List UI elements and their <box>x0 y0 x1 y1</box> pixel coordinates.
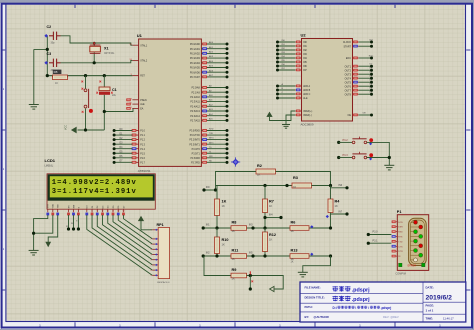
svg-text:1K: 1K <box>291 229 294 233</box>
svg-text:RXD: RXD <box>398 232 403 234</box>
svg-text:ERROR: ERROR <box>408 266 417 268</box>
svg-text:COMPIM: COMPIM <box>396 272 406 275</box>
push button P3.2 <box>337 141 340 144</box>
svg-text:VREF(+): VREF(+) <box>303 111 312 113</box>
crystal X1 <box>93 43 95 46</box>
op: U1 microcontroller AT89C51 body <box>139 39 202 166</box>
resistor R2 <box>256 169 276 174</box>
op: U2 ADC0808 body <box>302 39 353 122</box>
svg-text:4: 4 <box>151 249 152 251</box>
svg-text:1K: 1K <box>269 237 272 241</box>
svg-text:OE: OE <box>363 113 367 115</box>
svg-text:.pdsprj: .pdsprj <box>352 297 370 303</box>
svg-text:P2.3/A11: P2.3/A11 <box>190 101 200 104</box>
svg-text:R8: R8 <box>54 70 58 74</box>
svg-text:BY:: BY: <box>305 315 310 319</box>
svg-text:OUT4: OUT4 <box>345 78 352 80</box>
svg-text:1K: 1K <box>222 200 227 204</box>
svg-text:OUT1: OUT1 <box>345 66 352 68</box>
wire VCC to RP1 pin1 <box>141 221 152 230</box>
node: C2/C3 junction <box>46 48 49 51</box>
svg-text:P0.5/AD5: P0.5/AD5 <box>190 67 201 70</box>
wire right column top <box>330 186 332 229</box>
svg-text:START: START <box>343 45 351 48</box>
wire R3 right / IN6 stub <box>312 186 348 188</box>
resistor R12 <box>263 232 268 252</box>
svg-text:OE: OE <box>348 115 352 117</box>
svg-text:2019/6/2: 2019/6/2 <box>426 294 453 301</box>
svg-text:RTS: RTS <box>398 237 403 239</box>
svg-text:LM016L: LM016L <box>45 165 54 168</box>
COMPIM indicator pins <box>411 221 416 223</box>
svg-text:7: 7 <box>151 265 152 267</box>
wire R9 left leg <box>204 256 231 276</box>
svg-text:R2: R2 <box>257 164 262 168</box>
svg-text:1K: 1K <box>222 242 225 246</box>
svg-text:VSS: VSS <box>48 204 50 209</box>
svg-text:P2.5/A13: P2.5/A13 <box>190 110 200 113</box>
wire: ground net left vertical <box>34 36 48 104</box>
svg-text:R9: R9 <box>232 268 237 272</box>
svg-text:ALE: ALE <box>303 97 308 100</box>
svg-text:TIME:: TIME: <box>426 316 434 320</box>
svg-text:11:46:17: 11:46:17 <box>443 316 454 320</box>
svg-text:P2.1/A9: P2.1/A9 <box>192 91 201 94</box>
svg-text:C1: C1 <box>112 88 117 92</box>
svg-text:D:\: D:\ <box>333 306 337 310</box>
svg-text:1K: 1K <box>55 82 58 85</box>
svg-text:ADD C: ADD C <box>303 93 311 96</box>
svg-text:FILE NAME:: FILE NAME: <box>305 286 321 290</box>
svg-text:1K: 1K <box>291 260 294 263</box>
svg-text:DCD: DCD <box>398 222 403 224</box>
wires LCD D0-D7 to RP1 <box>87 215 152 275</box>
wire RST row <box>47 75 132 77</box>
wire VREF(-) to ground <box>286 115 295 124</box>
wire VCC to VREF(+) <box>270 111 296 121</box>
svg-text:LCD1: LCD1 <box>45 158 56 163</box>
svg-text:1K: 1K <box>335 204 338 208</box>
svg-text:P3.5/T1: P3.5/T1 <box>192 153 201 155</box>
svg-text:VREF(-): VREF(-) <box>303 115 312 117</box>
svg-text:CLK: CLK <box>369 40 374 42</box>
svg-text:2: 2 <box>151 239 152 241</box>
svg-text:1K: 1K <box>232 277 235 281</box>
svg-text:R3: R3 <box>293 176 298 180</box>
svg-text:P3.0/RXD: P3.0/RXD <box>189 131 200 133</box>
svg-text:C3: C3 <box>47 52 52 56</box>
svg-text:1=4.998v2=2.489v: 1=4.998v2=2.489v <box>52 179 137 187</box>
svg-text:RD: RD <box>209 160 213 162</box>
svg-text:P3.3: P3.3 <box>343 154 349 157</box>
push button P3.3 <box>337 156 340 159</box>
svg-text:P2.7/A15: P2.7/A15 <box>190 120 200 123</box>
wire R9 right / probe <box>247 276 284 290</box>
power VCC (RP1) <box>138 216 143 220</box>
U1 right pins: stubs, numbers, wires, dots <box>201 44 227 162</box>
svg-text:P3.1/TXD: P3.1/TXD <box>190 135 200 137</box>
svg-text:R13: R13 <box>291 248 298 252</box>
wire LCD VDD <box>34 215 53 233</box>
svg-text:R10: R10 <box>222 238 229 242</box>
svg-text:P0.0/AD0: P0.0/AD0 <box>190 43 201 46</box>
svg-text:U2: U2 <box>301 33 307 38</box>
IN0 stub <box>204 186 216 191</box>
svg-text:RXD: RXD <box>209 129 214 131</box>
resistor R13 <box>290 254 309 259</box>
svg-text:P2.4/A12: P2.4/A12 <box>190 105 200 108</box>
svg-text:P0.7/AD7: P0.7/AD7 <box>190 76 201 79</box>
ground (ADC VREF-) <box>282 125 290 129</box>
svg-text:P0.6/AD6: P0.6/AD6 <box>190 71 201 74</box>
IN4 stub <box>265 217 281 219</box>
svg-text:1K: 1K <box>257 173 260 177</box>
wire right column to ground <box>303 256 331 272</box>
svg-text:P1.6: P1.6 <box>140 158 145 160</box>
svg-text:ADC0809: ADC0809 <box>301 123 314 127</box>
svg-text:ALE: ALE <box>140 103 145 106</box>
title block <box>300 282 466 322</box>
ground (LCD) <box>29 250 39 255</box>
wire C2 to XTAL1 <box>61 36 133 45</box>
svg-text:EA: EA <box>140 108 144 111</box>
svg-text:P3.2/INT0: P3.2/INT0 <box>189 140 200 142</box>
svg-text:P1.1: P1.1 <box>140 135 145 137</box>
wire mid column top <box>264 186 266 229</box>
wires LCD RS RW E <box>69 215 79 229</box>
wire C3 to XTAL2 <box>61 60 133 62</box>
svg-text:1K: 1K <box>232 229 235 233</box>
wire row IN0 <box>216 185 293 187</box>
svg-text:P1.4: P1.4 <box>140 149 145 151</box>
origin marker (blue diamond) <box>231 157 240 166</box>
svg-text:R12: R12 <box>269 233 276 237</box>
svg-text:CRYSTAL: CRYSTAL <box>104 52 115 55</box>
svg-text:P0.3/AD3: P0.3/AD3 <box>190 57 201 60</box>
svg-text:OUT8: OUT8 <box>345 94 352 96</box>
svg-text:8: 8 <box>151 270 152 272</box>
resistor R4 <box>328 199 333 213</box>
svg-text:CTS: CTS <box>398 246 403 248</box>
push button (reset) <box>85 76 87 130</box>
resistor R8 (reset pulldown) <box>53 70 62 74</box>
resistor R7 <box>263 199 268 213</box>
svg-text:DSR: DSR <box>398 227 403 229</box>
wires P3.0 P3.1 to COMPIM <box>368 234 391 236</box>
power VCC (ADC VREF+) <box>267 112 272 116</box>
U1 PSEN/ALE/EA red pin boxes <box>126 98 131 101</box>
svg-text:EOC: EOC <box>369 56 374 58</box>
svg-text:1K: 1K <box>293 185 296 189</box>
svg-text:P2.6/A14: P2.6/A14 <box>190 115 200 118</box>
svg-text:TXD: TXD <box>398 241 403 243</box>
svg-text:ADD A: ADD A <box>303 85 310 88</box>
svg-text:.pdsprj: .pdsprj <box>381 306 392 310</box>
U1 left pin stubs and names <box>132 45 138 162</box>
svg-text:\: \ <box>355 306 356 310</box>
svg-text:RW: RW <box>71 223 74 225</box>
svg-text:REV: @REV: REV: @REV <box>383 315 399 319</box>
svg-text:P1.2: P1.2 <box>140 140 145 142</box>
ground (reset network) <box>29 105 39 110</box>
svg-text:TXD: TXD <box>209 133 214 135</box>
wire R2 right <box>276 172 331 186</box>
U1 P1 left wires with D0-D7 labels <box>114 131 132 163</box>
svg-text:OUT7: OUT7 <box>345 90 352 92</box>
svg-text:5: 5 <box>151 254 152 256</box>
svg-text:.pdsprj: .pdsprj <box>352 288 370 294</box>
svg-text:6: 6 <box>151 260 152 262</box>
svg-text:ADD B: ADD B <box>303 89 311 92</box>
wire LCD VEE contrast arrow <box>48 215 58 242</box>
wire row IN2 <box>203 255 330 257</box>
svg-text:C2: C2 <box>47 25 52 29</box>
svg-text:3: 3 <box>151 244 152 246</box>
svg-text:P0.2/AD2: P0.2/AD2 <box>190 53 201 56</box>
svg-text:\: \ <box>368 306 369 310</box>
svg-text:RW: RW <box>73 205 75 208</box>
svg-text:9: 9 <box>151 275 152 277</box>
svg-text:DTR: DTR <box>398 251 403 253</box>
resistor R6 <box>290 226 309 231</box>
wire row IN1 <box>203 227 330 229</box>
IN7 stub <box>331 213 348 215</box>
resistor R5 (1K left column) <box>215 199 220 216</box>
svg-text:WR: WR <box>209 156 213 158</box>
resistor R3 <box>292 183 312 188</box>
svg-text:P3.1: P3.1 <box>373 239 379 242</box>
svg-text:OUT2: OUT2 <box>345 70 352 72</box>
svg-text:P3.6/WR: P3.6/WR <box>190 158 200 160</box>
power arrow (R9 output) <box>270 286 274 291</box>
svg-text:AT89C51: AT89C51 <box>138 169 151 173</box>
capacitor C1 (electrolytic) <box>103 76 105 87</box>
svg-text:DATE:: DATE: <box>426 286 434 290</box>
svg-text:DESIGN TITLE:: DESIGN TITLE: <box>305 295 325 299</box>
svg-text:1 of 1: 1 of 1 <box>426 309 434 313</box>
svg-text:@AUTHOR: @AUTHOR <box>314 315 330 319</box>
svg-text:OUT6: OUT6 <box>345 86 352 88</box>
resistor R8b (row2 left) <box>231 226 247 231</box>
svg-text:P3.2: P3.2 <box>343 139 349 142</box>
svg-text:VCC: VCC <box>65 125 68 130</box>
resistor R10 <box>215 237 220 254</box>
svg-text:R7: R7 <box>269 200 274 204</box>
svg-text:RESPACK-8: RESPACK-8 <box>157 281 170 284</box>
ground (buttons) <box>384 165 394 170</box>
svg-text:P3.3/INT1: P3.3/INT1 <box>189 144 200 146</box>
svg-text:1K: 1K <box>232 257 235 261</box>
svg-text:RST: RST <box>140 76 145 78</box>
svg-text:P1.0: P1.0 <box>140 131 145 133</box>
svg-text:PATH:: PATH: <box>305 305 313 309</box>
wire buttons to ground <box>367 142 390 165</box>
svg-text:XTAL2: XTAL2 <box>140 60 148 63</box>
svg-text:1K: 1K <box>222 204 225 208</box>
svg-text:22u: 22u <box>112 94 117 97</box>
svg-text:R11: R11 <box>232 248 239 252</box>
svg-text:3=1.117v4=1.391v: 3=1.117v4=1.391v <box>52 188 137 196</box>
svg-text:P3.0: P3.0 <box>373 231 379 234</box>
resistor R9 <box>231 273 247 278</box>
svg-text:R8: R8 <box>232 220 237 224</box>
wire left column <box>216 186 218 229</box>
svg-text:CLOCK: CLOCK <box>343 42 351 44</box>
wire LCD VSS to ground <box>34 215 48 250</box>
svg-text:U1: U1 <box>137 33 143 38</box>
svg-text:PAGE:: PAGE: <box>426 304 435 308</box>
svg-text:P3.7/RD: P3.7/RD <box>191 162 200 164</box>
svg-text:P1: P1 <box>397 210 402 214</box>
svg-text:P2.2/A10: P2.2/A10 <box>190 96 200 99</box>
svg-text:1K: 1K <box>269 204 272 208</box>
resistor R11 <box>231 254 247 259</box>
wire VCC row <box>78 129 105 131</box>
svg-text:OUT3: OUT3 <box>345 74 352 76</box>
svg-text:EOC: EOC <box>346 58 351 60</box>
svg-text:P2.0/A8: P2.0/A8 <box>192 87 201 90</box>
svg-text:P0.4/AD4: P0.4/AD4 <box>190 62 201 65</box>
svg-text:VEE: VEE <box>58 204 60 209</box>
COMPIM error indicators <box>399 263 402 267</box>
U2 left pins stubs/wires <box>278 42 296 98</box>
COMPIM D-sub connector <box>409 218 427 265</box>
svg-text:VDD: VDD <box>53 203 55 208</box>
svg-text:P0.1/AD1: P0.1/AD1 <box>190 48 201 51</box>
svg-text:PSEN: PSEN <box>140 100 147 102</box>
power VCC (reset) <box>72 127 76 132</box>
U2 right pins stubs/wires <box>353 42 359 115</box>
ground (resistor network) <box>298 272 308 277</box>
svg-text:P1.3: P1.3 <box>140 144 145 146</box>
svg-text:XTAL1: XTAL1 <box>140 44 148 47</box>
svg-text:P3.4/T0: P3.4/T0 <box>192 149 201 151</box>
wire R2 left <box>216 172 257 186</box>
svg-text:30p: 30p <box>51 42 56 45</box>
svg-text:RP1: RP1 <box>157 223 164 227</box>
svg-text:X1: X1 <box>104 47 109 51</box>
svg-text:OUT5: OUT5 <box>345 82 352 84</box>
svg-text:P1.7: P1.7 <box>140 162 145 164</box>
wire C1 bottom / EA branch <box>104 95 133 130</box>
svg-text:P1.5: P1.5 <box>140 153 145 155</box>
svg-text:R6: R6 <box>291 220 296 224</box>
